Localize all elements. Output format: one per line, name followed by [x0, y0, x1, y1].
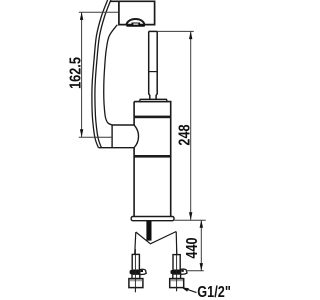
leader arrowhead — [181, 287, 189, 291]
left connector neck — [132, 274, 140, 278]
handle lever outer edge (double line) — [92, 0, 111, 148]
spout head block — [110, 1, 154, 24]
ball joint arc — [134, 125, 139, 148]
dimension 248 arrows — [189, 31, 192, 39]
aerator base bar — [126, 25, 145, 27]
dimension 162.5 extension line top — [79, 11, 119, 13]
rod joint line — [149, 71, 158, 73]
dimension 440 arrows — [200, 220, 203, 228]
cartridge plate — [140, 99, 168, 101]
hose zigzag — [135, 232, 177, 255]
svg-text:440: 440 — [184, 237, 201, 258]
base extension line — [175, 219, 206, 221]
left connector centerline overlay — [134, 254, 136, 292]
base plate — [131, 217, 174, 221]
left connector clip — [140, 269, 146, 274]
dimension 440 line — [200, 220, 202, 271]
dimension 162.5 arrows — [80, 12, 83, 20]
handle hub — [98, 125, 138, 148]
right connector centerline — [176, 249, 178, 291]
dimension 440 extension line bottom — [186, 270, 204, 272]
body cylinder — [134, 102, 171, 217]
right connector clip — [181, 269, 187, 274]
svg-text:G1/2": G1/2" — [197, 284, 231, 300]
dimension 162.5 extension line bottom — [79, 136, 112, 138]
dimension 248 line — [190, 31, 192, 220]
right connector neck — [173, 274, 181, 279]
left connector centerline — [134, 249, 136, 292]
right connector centerline overlay — [176, 255, 178, 292]
dimension 248 extension line top — [157, 30, 194, 32]
left connector nut — [129, 279, 143, 288]
riser rod — [149, 31, 158, 99]
left connector collar — [130, 270, 142, 274]
aerator slot — [132, 23, 141, 26]
right connector nut — [170, 279, 184, 288]
right connector collar — [171, 270, 183, 274]
svg-text:162.5: 162.5 — [67, 57, 84, 89]
leader line G1/2 — [184, 288, 197, 292]
left connector stem — [132, 254, 139, 270]
right connector stem — [173, 255, 180, 271]
handle inner edge — [104, 25, 118, 125]
mounting stud — [146, 221, 151, 241]
svg-text:248: 248 — [176, 124, 193, 145]
dimension 162.5 line — [81, 12, 83, 137]
aerator dome — [126, 19, 144, 25]
upper band — [134, 116, 171, 119]
lower band — [134, 155, 171, 158]
